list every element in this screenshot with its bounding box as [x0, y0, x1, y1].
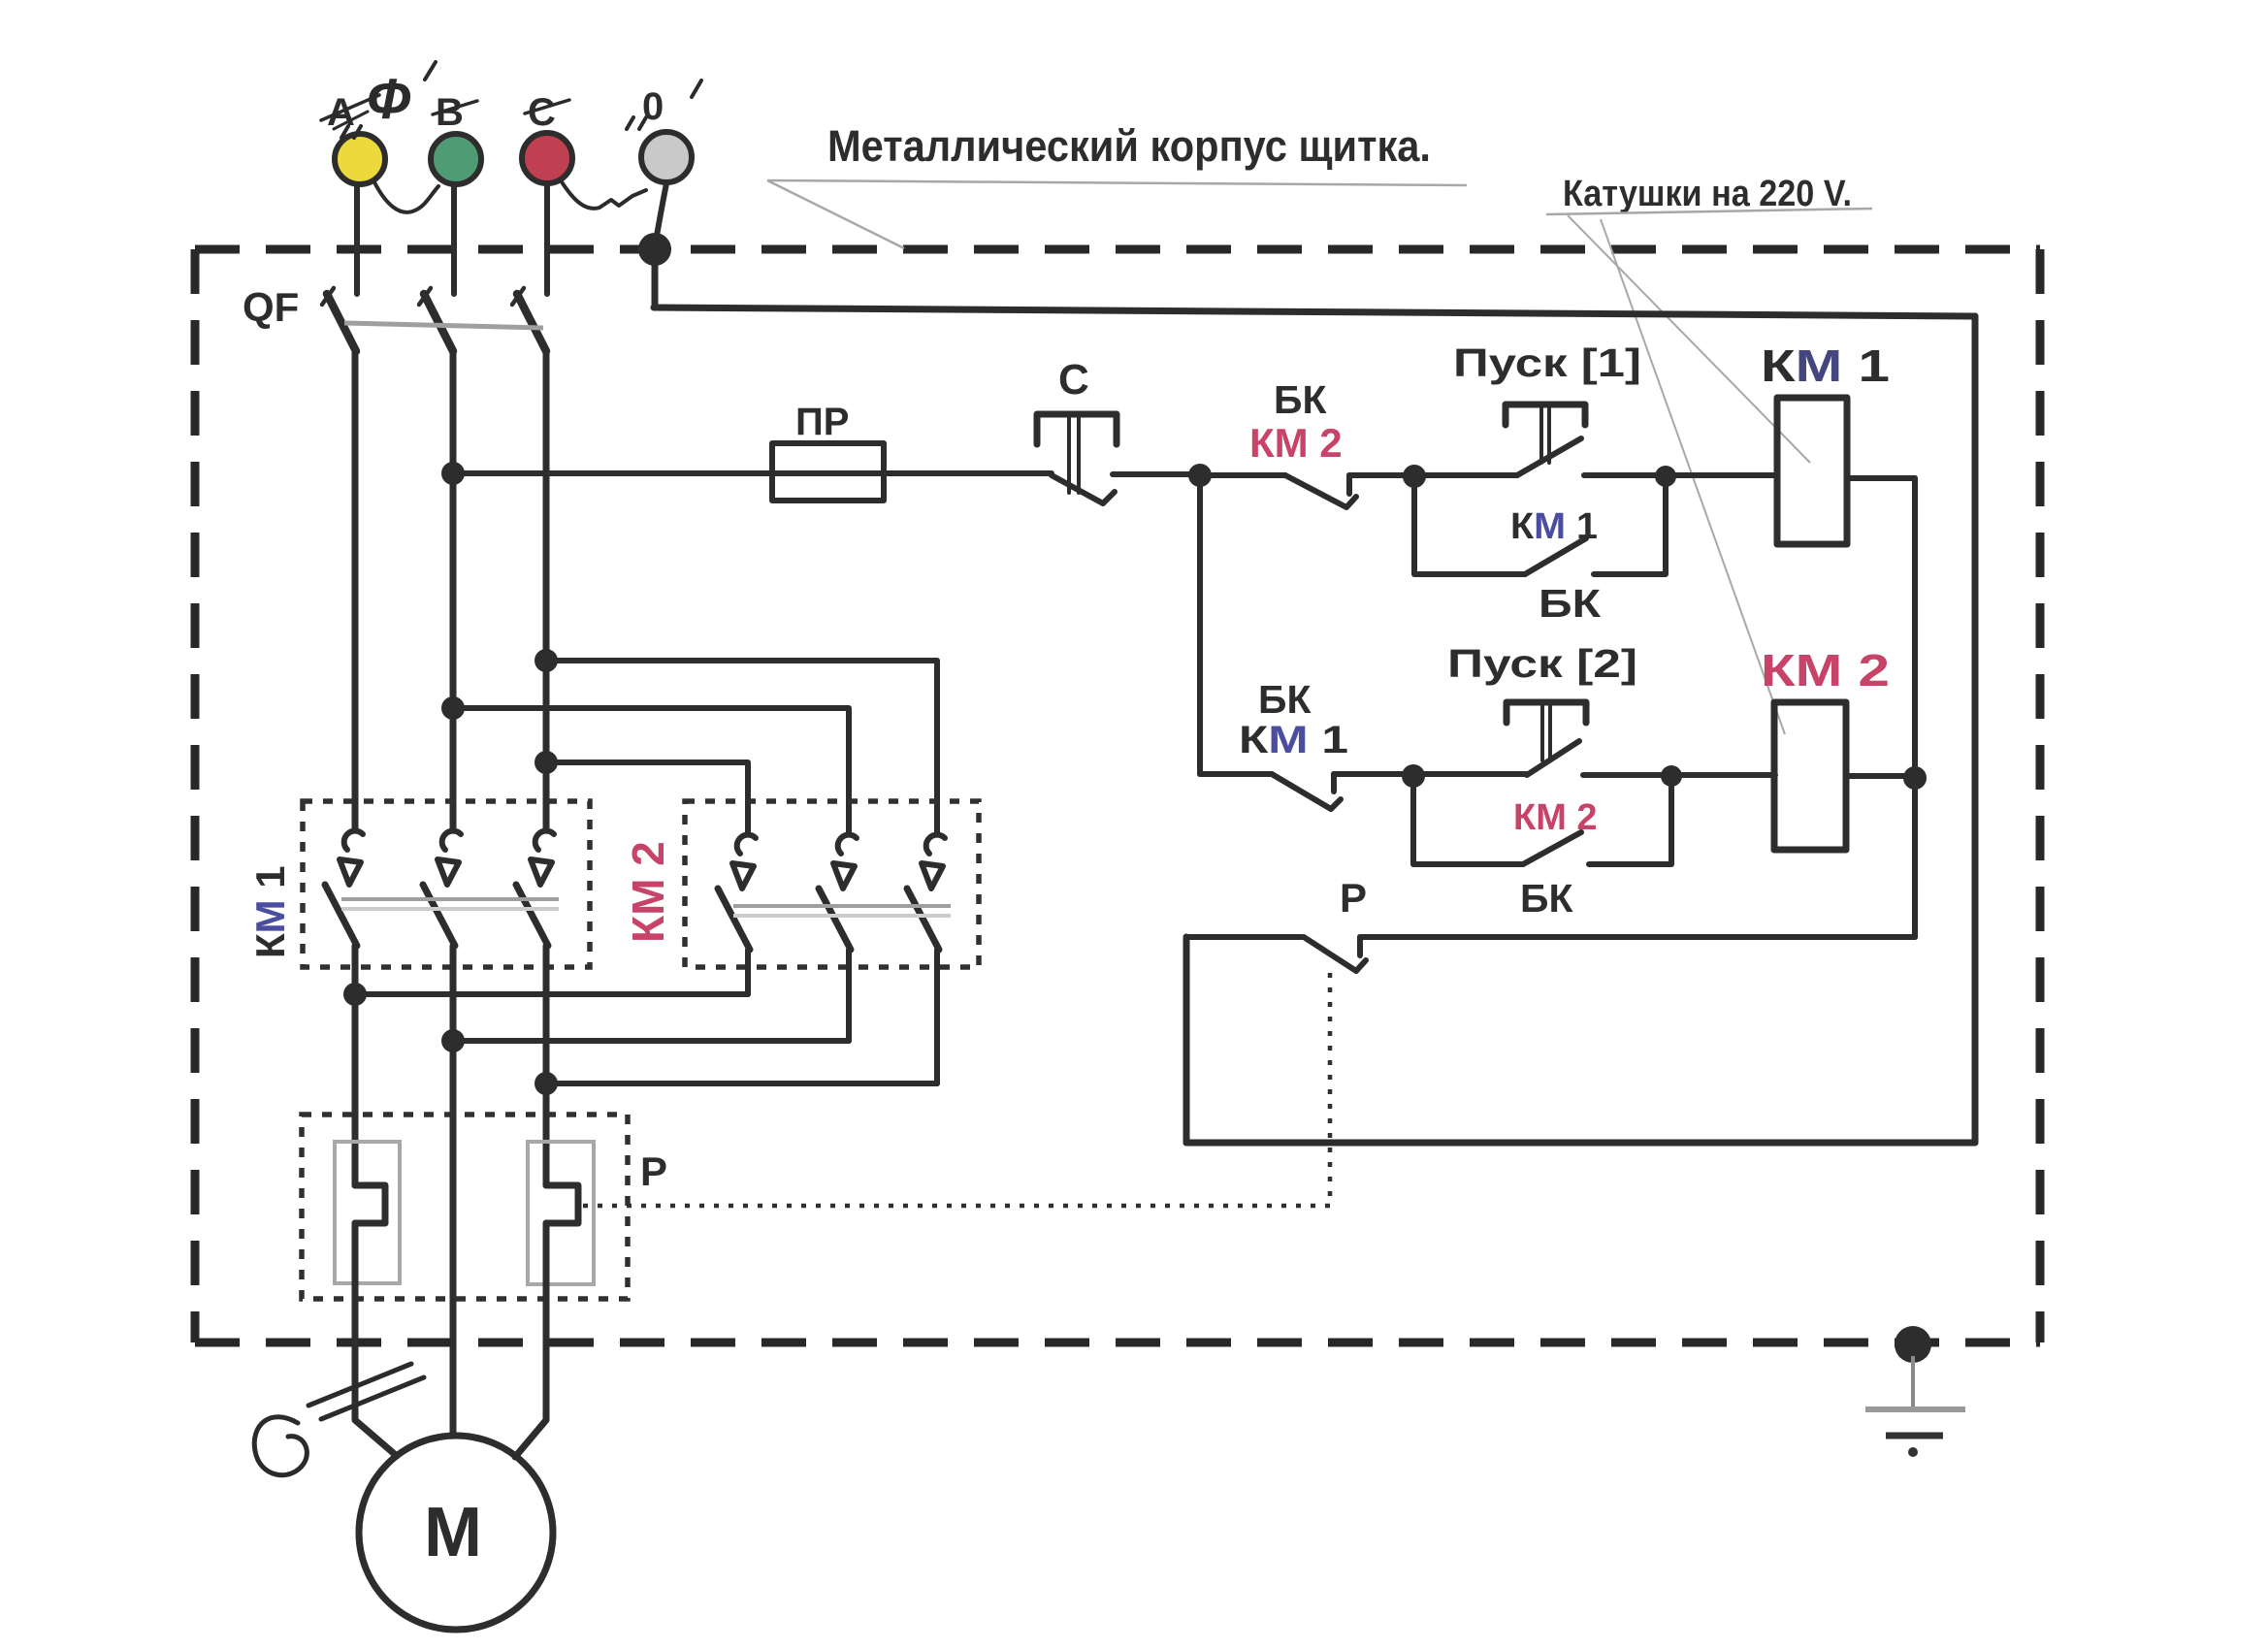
svg-text:КМ 1: КМ 1 — [1239, 719, 1348, 761]
enclosure dashed border (metal panel case) — [195, 249, 2040, 1342]
wire phase A below heater — [355, 1223, 397, 1456]
stop button C — [1037, 356, 1117, 503]
wire control rung 1 left — [453, 470, 1052, 476]
circuit breaker QF — [243, 284, 546, 351]
thermal relay NC contact P (return rung) — [1186, 875, 1915, 971]
node rung1 selfhold left — [1403, 465, 1426, 488]
contactor KM1 main contacts box — [303, 801, 590, 967]
wire phase B vertical — [450, 351, 457, 829]
KM1 pole C — [516, 831, 554, 1185]
wire tie B output to KM2 middle pole — [453, 1038, 849, 1044]
NC interlock contact БК КМ1 (rung 2) — [1200, 677, 1527, 809]
jumper wire lamp C to 0 (pen) — [561, 180, 646, 209]
wire coil output bus — [1912, 478, 1918, 937]
label B — [433, 91, 477, 134]
svg-text:КМ 1: КМ 1 — [1510, 506, 1598, 547]
node rung2 selfhold left — [1402, 764, 1425, 788]
contactor KM2 main contacts box — [685, 801, 979, 967]
jumper wire lamp A to B (pen) — [373, 180, 438, 212]
terminal lamp C (red) — [522, 133, 572, 294]
svg-text:QF: QF — [243, 284, 299, 330]
svg-text:БК: БК — [1539, 581, 1602, 626]
svg-text:БК: БК — [1258, 677, 1312, 722]
svg-text:P: P — [640, 1148, 667, 1194]
svg-text:Катушки на 220 V.: Катушки на 220 V. — [1563, 174, 1852, 214]
node control tap on phase B — [441, 462, 465, 485]
NC interlock contact БК КМ2 (rung 1) — [1200, 377, 1414, 507]
svg-text:КМ 1: КМ 1 — [247, 865, 293, 958]
QF pole A blade — [327, 294, 356, 351]
svg-text:C: C — [1058, 356, 1089, 404]
svg-text:ПР: ПР — [795, 401, 849, 443]
note: Металлический корпус щитка. — [767, 121, 1467, 248]
pen squiggle C — [254, 1417, 307, 1475]
svg-text:Пуск [1]: Пуск [1] — [1453, 340, 1641, 385]
svg-text:P: P — [1340, 875, 1367, 921]
wire tie A output to KM2 left pole — [355, 991, 748, 997]
coil KM2 — [1761, 645, 1915, 850]
wire crossover B phase to KM2 middle pole — [441, 696, 465, 720]
node neutral bonded to case — [638, 233, 671, 266]
svg-text:КМ 2: КМ 2 — [1249, 420, 1343, 466]
svg-text:Ф: Ф — [367, 68, 411, 131]
label 0 — [627, 81, 701, 129]
heater element phase C — [528, 1142, 594, 1284]
wire tie C output to KM2 right pole — [546, 1081, 937, 1086]
KM1 mechanical tie — [341, 897, 559, 901]
node rung1 selfhold right — [1655, 466, 1676, 487]
node coil bus junction — [1903, 766, 1927, 790]
QF pole B blade — [424, 294, 453, 351]
wire phase C vertical — [543, 351, 550, 829]
svg-text:КМ 2: КМ 2 — [1513, 797, 1598, 838]
KM2 pole middle — [819, 835, 857, 1041]
svg-text:КМ 2: КМ 2 — [623, 841, 673, 943]
KM2 pole left — [718, 835, 756, 994]
wire rung1 after stop button — [1113, 471, 1200, 477]
dotted mechanical link of thermal relay P — [1328, 973, 1333, 1206]
svg-text:Пуск [2]: Пуск [2] — [1447, 641, 1637, 686]
svg-text:БК: БК — [1274, 377, 1327, 422]
svg-text:БК: БК — [1520, 876, 1573, 921]
svg-text:КМ 1: КМ 1 — [1761, 340, 1890, 391]
self-hold contact КМ1 БК (bypass rung1) — [1414, 477, 1666, 626]
heater element phase A — [335, 1142, 400, 1283]
wire neutral: terminal 0 down, along top, down right side, bottom return — [654, 249, 1975, 1143]
KM1 pole B — [423, 831, 461, 1434]
KM2 pole right — [907, 835, 945, 1083]
label C (phase) — [525, 91, 569, 134]
wire crossover C phase to KM2 right pole — [535, 649, 558, 672]
QF pole C blade — [517, 294, 546, 351]
label A (crossed) with Ф — [321, 62, 436, 138]
wire crossover C phase to KM2 left pole — [535, 751, 558, 774]
node motor tie A / KM2 left — [343, 983, 367, 1006]
start button Пуск [1] — [1414, 340, 1777, 475]
coil KM1 — [1761, 340, 1915, 544]
node case ground bond — [1895, 1326, 1931, 1363]
fuse ПР — [772, 401, 884, 501]
wire phase A vertical — [352, 351, 359, 829]
terminal lamp A (yellow) — [335, 134, 385, 294]
pen slash marks on cable — [308, 1364, 411, 1406]
QF mechanical tie — [344, 323, 543, 328]
self-hold contact КМ2 БК (bypass rung2) — [1413, 776, 1671, 921]
terminal lamp B (green) — [431, 134, 481, 294]
motor M — [359, 1436, 553, 1630]
ground symbol — [1865, 1356, 1965, 1457]
node motor tie C / KM2 right — [535, 1072, 558, 1095]
KM2 mechanical tie — [733, 904, 951, 908]
wire phase C below heater — [515, 1223, 546, 1457]
node motor tie B / KM2 middle — [441, 1029, 465, 1052]
wire rung1 to rung2 drop — [1197, 475, 1203, 774]
svg-text:КМ 2: КМ 2 — [1761, 645, 1890, 695]
thermal relay P heaters box — [302, 1115, 628, 1299]
start button Пуск [2] — [1447, 641, 1775, 775]
note: Катушки на 220 V. — [1546, 174, 1872, 734]
node rung1 branch — [1188, 464, 1212, 487]
node rung2 selfhold right — [1661, 765, 1682, 787]
svg-text:М: М — [424, 1494, 482, 1571]
svg-text:Металлический корпус щитка.: Металлический корпус щитка. — [827, 121, 1431, 171]
KM1 pole A — [325, 831, 363, 1185]
terminal lamp 0 (gray, neutral) — [641, 132, 692, 248]
